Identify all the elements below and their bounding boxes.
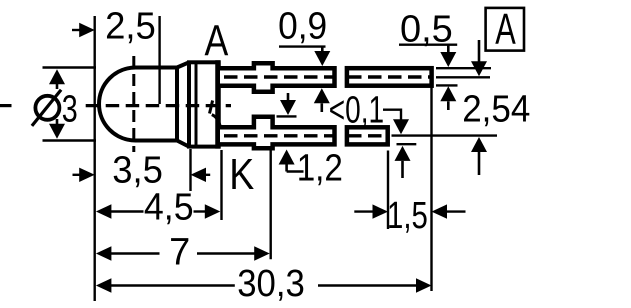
dimension 3,5 (73, 150, 211, 192)
section box A (486, 5, 524, 54)
flange tick mark (210, 101, 213, 114)
dimension 0,9 (278, 5, 330, 112)
svg-text:4,5: 4,5 (144, 187, 194, 229)
svg-text:A: A (495, 5, 516, 54)
flange (189, 62, 218, 146)
flange curve mark (212, 115, 221, 127)
cathode lead segment 2 (347, 127, 388, 144)
dimension 2,5 (72, 5, 156, 47)
extension line left (main) (93, 16, 95, 301)
extension line flange left (189, 149, 191, 191)
flange right edge (heavy) (215, 60, 221, 148)
anode lead segment 2 (347, 68, 432, 86)
svg-text:1,2: 1,2 (297, 148, 343, 190)
svg-text:0,9: 0,9 (278, 5, 327, 47)
taper top (177, 62, 189, 67)
dimension 7 (96, 232, 270, 274)
svg-text:K: K (229, 150, 254, 199)
svg-text:3,5: 3,5 (112, 150, 163, 192)
taper bottom (177, 141, 189, 147)
cathode centerline extension (2,54) (392, 134, 498, 136)
dimension 4,5 (96, 187, 220, 229)
svg-text:A: A (205, 17, 229, 66)
extension line anode end (430, 87, 432, 292)
dimension 1,2 (277, 93, 343, 190)
svg-text:1,5: 1,5 (387, 195, 428, 237)
anode lead centerline (dashed) (224, 75, 430, 78)
lead end extension lines (0,5) (436, 67, 491, 69)
svg-text:2,5: 2,5 (105, 5, 156, 47)
extension line flange right (220, 150, 222, 220)
anode centerline extension (2,54) (436, 76, 490, 78)
dimension 0,5 (399, 9, 457, 111)
anode lead segment 1 with tab (220, 63, 335, 91)
dimension 1,5 (354, 195, 465, 237)
svg-text:30,3: 30,3 (237, 263, 305, 305)
dome vertical centerline (dashed) (132, 56, 135, 152)
extension line tab right (270, 149, 272, 260)
dimension 2,54 (462, 40, 530, 175)
svg-text:<0,1: <0,1 (329, 89, 384, 131)
svg-text:2,54: 2,54 (462, 89, 530, 131)
dimension Ø3 (32, 68, 96, 141)
cathode lead centerline (dashed) (224, 134, 386, 137)
extension line dimension 2,5 right (158, 16, 160, 104)
svg-text:3: 3 (62, 89, 78, 131)
axis centerline (dashed) (0, 104, 231, 107)
extension line cathode end (387, 151, 389, 230)
dimension 30,3 (96, 263, 432, 305)
svg-text:7: 7 (169, 232, 190, 274)
dimension <0,1 (329, 89, 417, 178)
flange front-face line (195, 62, 198, 146)
LED dome body (99, 68, 177, 141)
cathode lead segment 1 with tab (220, 117, 335, 148)
